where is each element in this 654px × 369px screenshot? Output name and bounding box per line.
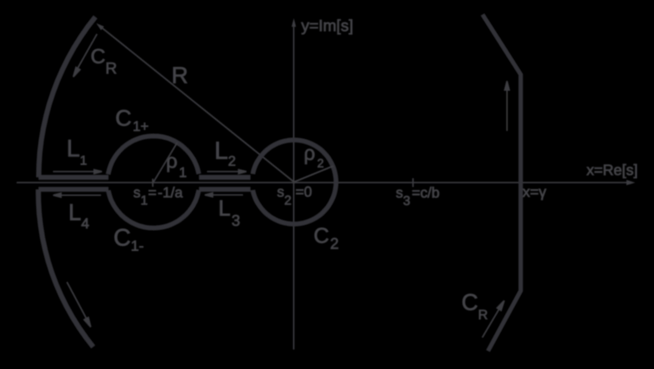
Bromwich contour line x=gamma with bevels — [483, 15, 521, 352]
label s1=-1/a — [134, 187, 183, 205]
direction arrow on lower arc — [67, 282, 91, 327]
label L2 — [216, 142, 235, 166]
segment L2 (upper bar, C1 to C2) — [199, 175, 251, 180]
y-axis arrowhead — [292, 18, 296, 27]
label L1 — [69, 140, 87, 165]
x-axis arrowhead — [626, 180, 635, 185]
label C1+ — [116, 110, 148, 131]
label C_R top-left — [92, 49, 117, 74]
segment L3 (lower bar, C2 to C1) — [199, 187, 251, 192]
direction arrow L1 (right) — [53, 170, 102, 174]
label rho2 — [305, 149, 323, 167]
label L4 — [70, 204, 89, 228]
tick s1 — [152, 179, 154, 187]
radius line R — [99, 25, 294, 182]
circle C1 upper arc (C1+) — [108, 136, 199, 174]
direction arrow on bottom bevel — [482, 301, 504, 338]
circle C2 — [253, 140, 336, 224]
label s3=c/b — [396, 187, 439, 205]
big arc C_R upper-left — [39, 17, 96, 177]
label s2=0 — [277, 187, 311, 205]
label C_R bottom-right — [463, 294, 488, 319]
segment L4 (lower bar, C1 to arc) — [39, 187, 109, 192]
tick s3 — [412, 178, 414, 187]
direction arrow L3 (left) — [205, 193, 243, 197]
label x=gamma — [523, 189, 547, 200]
radius line rho2 — [294, 166, 333, 182]
label rho1 — [167, 157, 186, 177]
segment L1 (upper bar, arc to C1) — [39, 175, 109, 180]
direction arrow up on Bromwich line — [505, 81, 510, 131]
x-axis — [17, 182, 628, 184]
arrowhead of R — [96, 23, 104, 30]
label x=Re[s] — [587, 164, 637, 178]
circle C1 lower arc (C1-) — [108, 190, 199, 228]
y-axis — [293, 23, 295, 350]
label R — [173, 67, 187, 83]
radius line rho1 — [154, 143, 178, 182]
label L3 — [220, 200, 239, 226]
direction arrow L2 (right) — [207, 170, 246, 174]
label y=Im[s] — [301, 19, 352, 34]
direction arrow L4 (left) — [53, 193, 101, 197]
big arc C_R lower-left — [38, 189, 93, 347]
label C1- — [115, 229, 143, 251]
direction arrow on upper arc — [73, 34, 97, 77]
label C2 — [315, 228, 338, 249]
